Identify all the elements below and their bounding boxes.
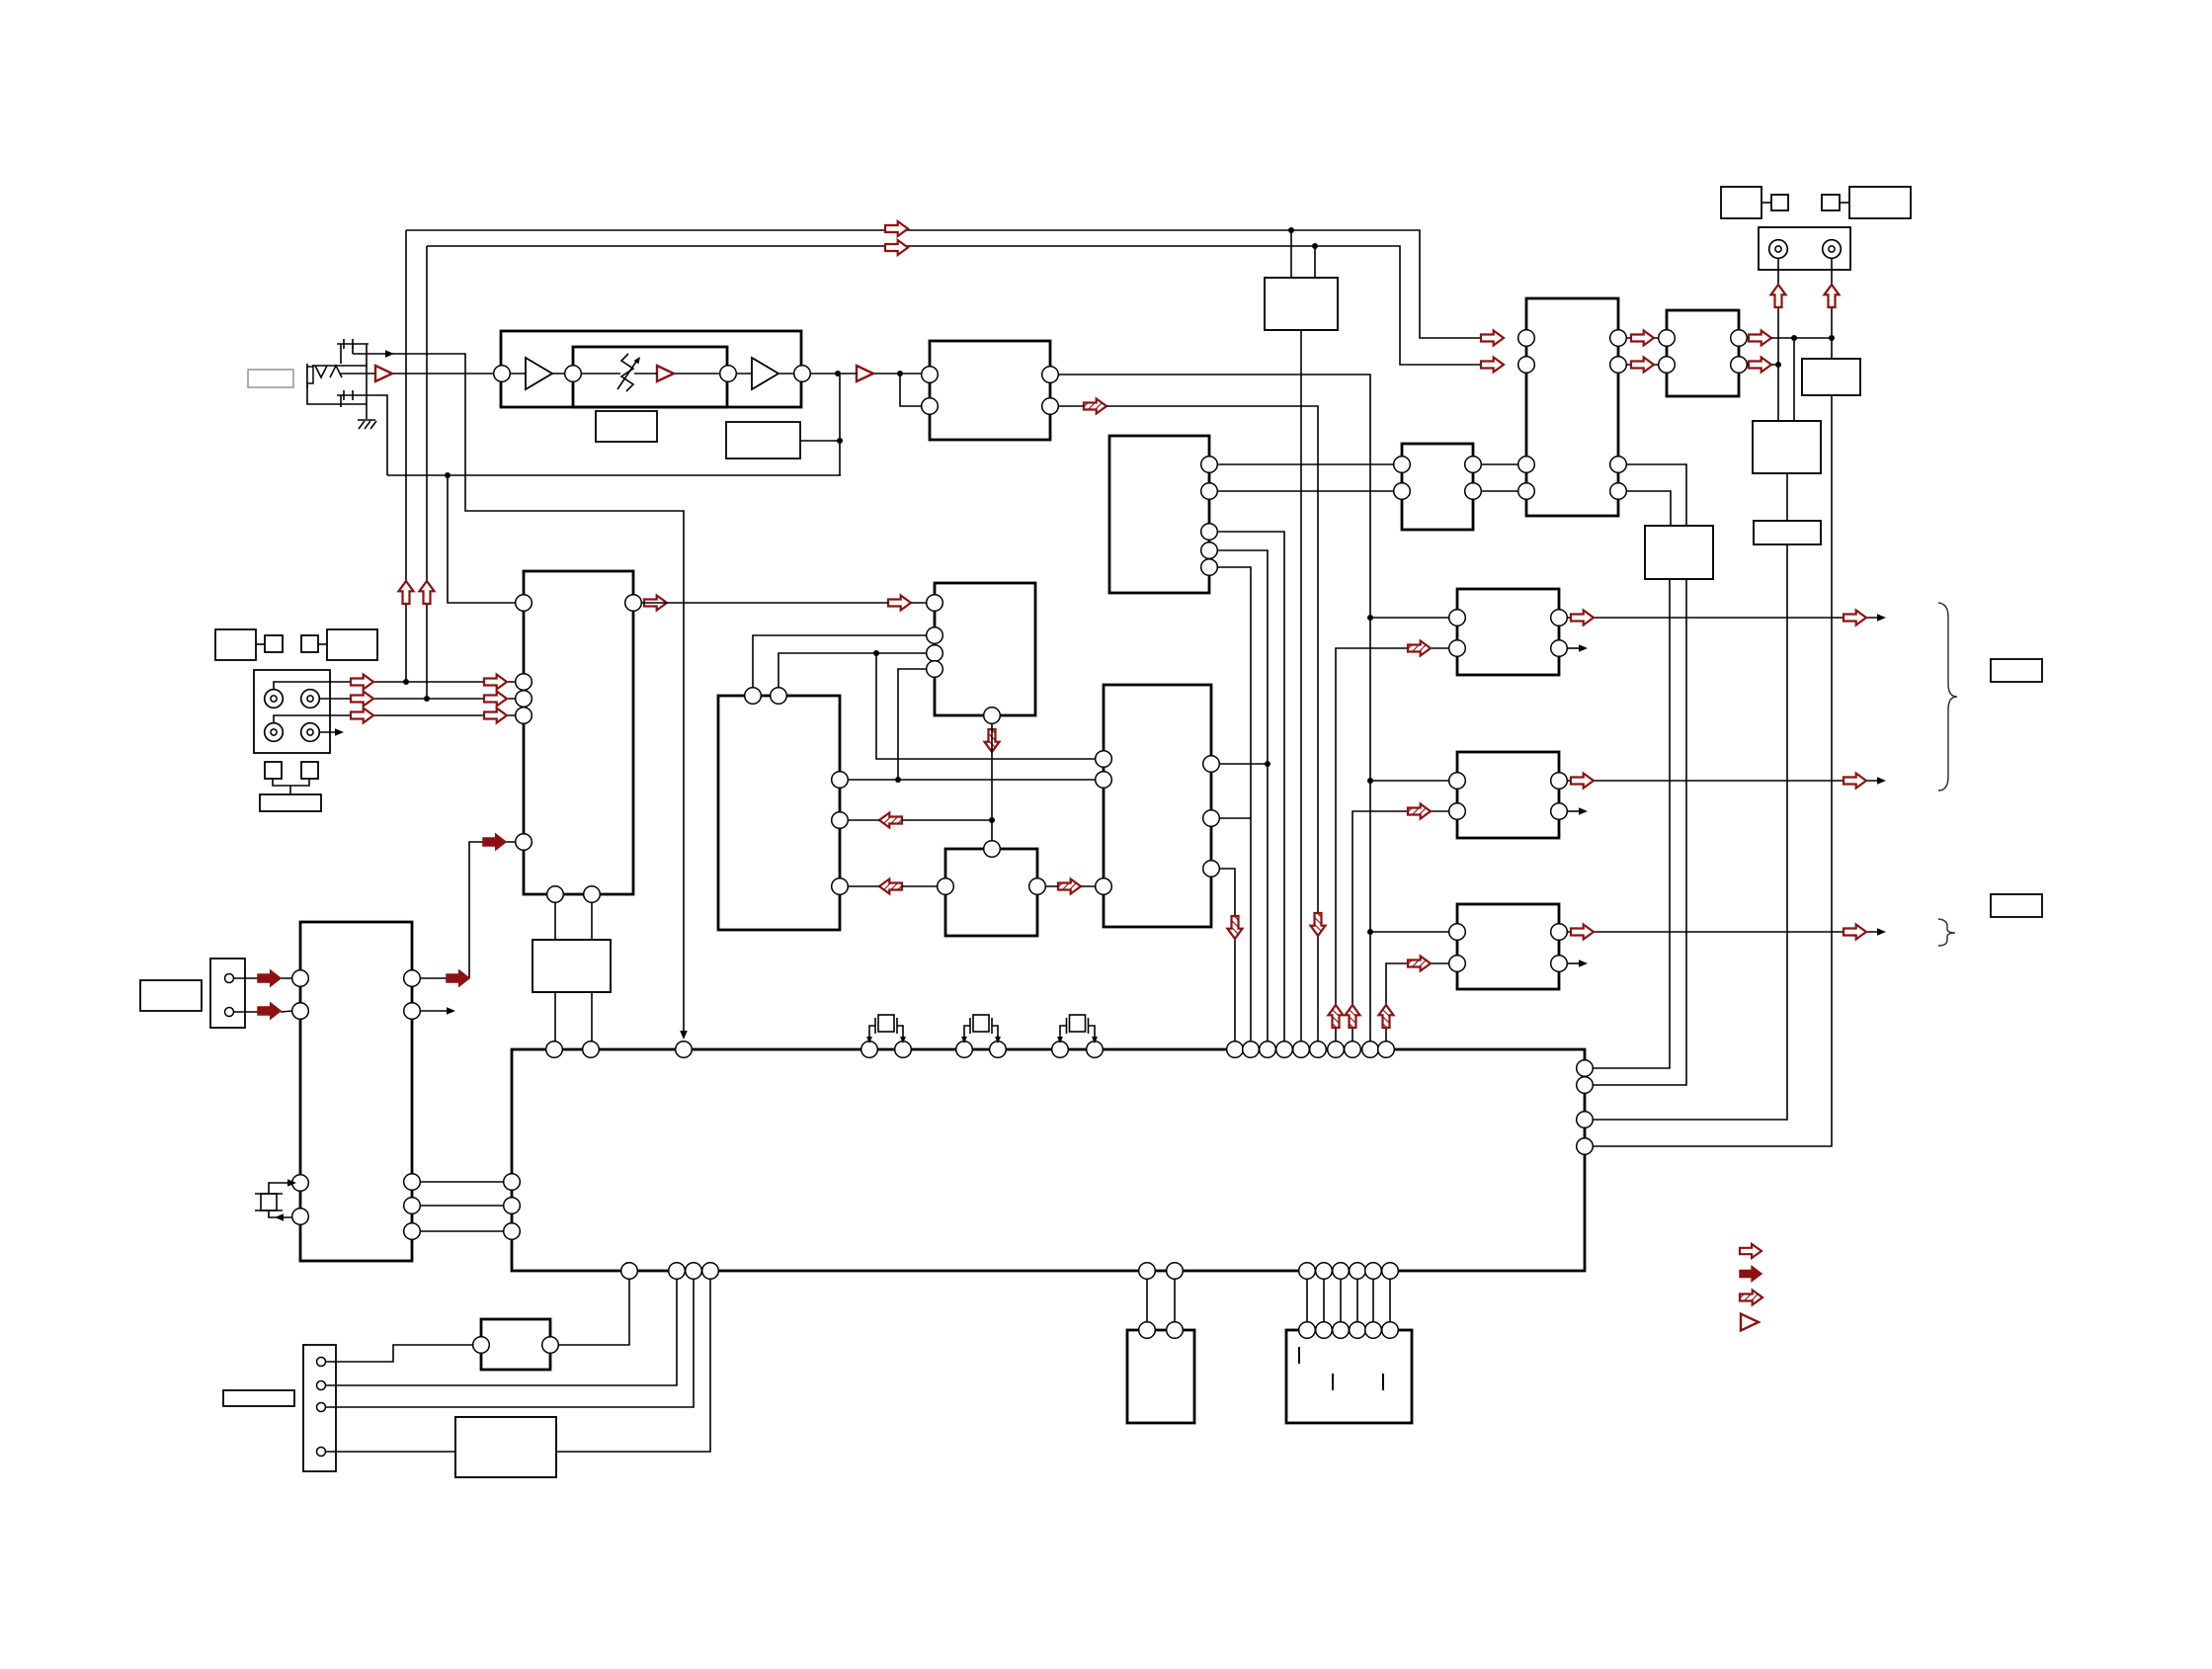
pin T1-2 <box>542 1337 559 1354</box>
pin M1-d <box>1551 640 1568 657</box>
pin U7-t2 <box>771 688 787 705</box>
wire U7r2 <box>848 819 992 821</box>
wire R to M2 <box>1370 780 1449 782</box>
pin U8-r3 <box>1203 861 1220 877</box>
hatched arrow m1ctl <box>1408 641 1431 656</box>
pin U17-t13 <box>1276 1042 1293 1058</box>
key mark 2 <box>1332 1374 1334 1390</box>
wire J4p2-U17 <box>326 1279 677 1385</box>
pin U6-2 <box>927 627 943 644</box>
headphone amp box U15 <box>1753 421 1821 473</box>
wire PS1-U17 <box>556 1279 710 1452</box>
pin U11-l3 <box>1518 457 1535 473</box>
pin U17-t12 <box>1260 1042 1276 1058</box>
node audio R in <box>1367 778 1373 784</box>
wire out2 R2 <box>1567 810 1581 812</box>
arrow DAC out L <box>1631 331 1654 346</box>
mute block M2 <box>1457 752 1559 838</box>
accessory box K <box>1849 187 1911 218</box>
resistor R2 <box>726 422 800 459</box>
pin KB1-3 <box>1333 1322 1350 1339</box>
pin U11-r2 <box>1610 357 1627 374</box>
pin U17-b3 <box>686 1263 702 1280</box>
wire U2 out aux <box>1058 406 1318 1049</box>
pin U19-r3 <box>404 1174 421 1191</box>
pin U5-x2 <box>584 886 601 903</box>
node HF-L join <box>403 679 409 685</box>
decoder block U8 <box>1104 685 1211 927</box>
pin U8-l3 <box>1096 878 1112 895</box>
wire jack4 out <box>319 731 340 733</box>
pin U8-r2 <box>1203 810 1220 827</box>
pin U17-r3 <box>1577 1112 1594 1128</box>
resistor R1 <box>596 411 657 442</box>
pin U19-r2 <box>404 1003 421 1020</box>
RCA jack 4 <box>301 723 320 742</box>
LPF block U12 <box>1667 310 1739 396</box>
pin U17-t17 <box>1345 1042 1361 1058</box>
J4 pin 1 <box>317 1358 326 1367</box>
pin KB1-5 <box>1365 1322 1382 1339</box>
wire DAC-LPF R <box>1626 364 1659 366</box>
RCA jack 3 <box>265 723 284 742</box>
amplifier A1 <box>657 366 674 381</box>
arrow LPF out R <box>1749 358 1771 373</box>
wire U5x1-U18 <box>554 902 556 940</box>
pin U19-r4 <box>404 1198 421 1214</box>
wire TE row <box>319 698 516 700</box>
pin U9-t <box>984 841 1001 858</box>
reset component at 976 <box>964 1026 970 1042</box>
wire U15-U16 <box>1786 473 1788 521</box>
pin U19-l1 <box>292 970 309 987</box>
pin U7-r3 <box>832 878 849 895</box>
phones jack box J2 <box>1759 227 1850 270</box>
arrow DAC in R <box>1481 358 1504 373</box>
system controller block U17 <box>512 1049 1585 1271</box>
accessory box G <box>260 794 321 811</box>
wire U8r3 <box>1219 869 1235 1049</box>
display driver block U19 <box>300 922 412 1261</box>
accessory box I <box>1771 195 1788 210</box>
brace line-out group <box>1938 603 1957 791</box>
wire remote2 <box>234 1011 292 1012</box>
pin U19-l2 <box>292 1003 309 1020</box>
spindle block U9 <box>945 849 1037 936</box>
wire C-D link <box>318 643 327 645</box>
pin U17-l1 <box>504 1174 521 1191</box>
pin M2-a <box>1449 773 1466 790</box>
wire LPF R out <box>1747 364 1778 366</box>
wire pickup monitor output <box>353 344 684 1038</box>
remote sensor box <box>140 980 202 1011</box>
wire U3 to line R <box>1314 246 1316 278</box>
legend open arrow <box>1740 1244 1761 1258</box>
arrow servo out <box>644 596 667 611</box>
pin U19-r1 <box>404 970 421 987</box>
wire U18 down a <box>554 992 556 1042</box>
accessory box J <box>1822 195 1840 210</box>
pin U17-t8 <box>1052 1042 1069 1058</box>
wire U19-U17 b3 <box>420 1230 504 1232</box>
pin U11-r4 <box>1610 483 1627 500</box>
filled arrow key a <box>447 970 469 986</box>
pin U6-4 <box>927 661 943 678</box>
pin U1-out <box>794 366 811 382</box>
phone jack R <box>1823 240 1842 259</box>
J4 pin 2 <box>317 1381 326 1390</box>
phone jack L <box>1769 240 1788 259</box>
pin U17-t5 <box>895 1042 912 1058</box>
pin U12-r2 <box>1731 357 1748 374</box>
pin U19-r5 <box>404 1223 421 1240</box>
pin U17-b7 <box>1299 1263 1316 1280</box>
hatched arrow U7-U9 <box>879 879 902 894</box>
arrow out L b <box>1843 611 1866 626</box>
wire out2 L2 <box>1567 647 1581 649</box>
EFM comparator block U2 <box>930 341 1050 440</box>
RCA connector block J1 <box>254 670 330 753</box>
remote connector J3 <box>210 959 245 1028</box>
hatched up arrow m2 <box>1346 1005 1360 1028</box>
wire U19 key out <box>420 842 516 978</box>
wire pickup lower output <box>369 395 387 475</box>
RF amplifier inner block U1b <box>573 347 727 407</box>
clock box U18 <box>533 940 611 992</box>
pin U11-l1 <box>1518 330 1535 347</box>
arrowhead X1 top <box>287 1179 296 1187</box>
wire U4 data3 <box>1217 567 1251 1049</box>
wire U7t2-U6 <box>778 653 927 688</box>
pin U17-t6 <box>956 1042 973 1058</box>
pin DSP1-a <box>1139 1322 1156 1339</box>
pin U5-in1 <box>516 595 533 612</box>
transformer box T1 <box>481 1319 550 1370</box>
wire U7r1-U8 <box>848 779 1096 781</box>
volume box U16 <box>1754 521 1821 544</box>
pin U19-l4 <box>292 1209 309 1225</box>
up arrow phones L <box>1771 285 1786 307</box>
wire FE row <box>274 682 516 690</box>
filled arrow key b <box>483 834 506 850</box>
pin U8-l2 <box>1096 772 1112 789</box>
up arrow phones R <box>1825 285 1840 307</box>
node data2 join <box>1265 761 1270 767</box>
digital out block U13 <box>1645 526 1713 579</box>
pin U5-ctl <box>516 834 533 851</box>
pin U2-1 <box>922 367 939 383</box>
reset component at 1073 <box>1060 1026 1067 1042</box>
sync/clock box U3 <box>1265 278 1338 330</box>
wire U8r2 <box>1219 817 1251 819</box>
node feedback join <box>837 438 843 444</box>
pin U7-r2 <box>832 812 849 829</box>
wire RF feedback to servo net <box>387 474 841 476</box>
wire U19 aux out <box>420 1010 450 1012</box>
wire U17-key3 <box>1340 1279 1342 1322</box>
pin U17-b8 <box>1316 1263 1333 1280</box>
wire DAC digital a <box>1626 464 1686 526</box>
RCA jack 1 <box>265 690 284 709</box>
node servo in tap <box>445 472 451 478</box>
wire RF to preamp <box>341 373 374 375</box>
wire U3 down to controller <box>1300 330 1302 1049</box>
arrow SE b <box>484 709 507 723</box>
display box DSP1 <box>1127 1330 1194 1423</box>
node mid junction A <box>873 650 879 656</box>
pin M3-d <box>1551 956 1568 972</box>
pin U1b-in <box>565 366 582 382</box>
pin U17-t7 <box>990 1042 1007 1058</box>
RF amplifier outer block U1 <box>501 331 801 407</box>
remote pin 2 <box>225 1008 234 1017</box>
wire RF out branch to lower pin <box>900 374 922 406</box>
arrow LPF out L <box>1749 331 1771 346</box>
arrowhead out R <box>1877 777 1886 785</box>
hatched arrow EFM aux <box>1084 399 1106 414</box>
pin U10-2 <box>1394 483 1411 500</box>
wire U8r1 <box>1219 763 1268 765</box>
mute block M3 <box>1457 904 1559 989</box>
pin U11-l2 <box>1518 357 1535 374</box>
pin U17-b2 <box>669 1263 686 1280</box>
digital-out label box <box>1991 894 2042 917</box>
pin U7-r1 <box>832 772 849 789</box>
arrow out D b <box>1843 925 1866 940</box>
wire J4p1-T1 <box>326 1345 473 1362</box>
wire servo in <box>448 475 516 603</box>
pin U17-r2 <box>1577 1077 1594 1094</box>
node audio L in <box>1367 615 1373 621</box>
filled arrow remote2 <box>258 1003 281 1019</box>
wire U17-key5 <box>1372 1279 1374 1322</box>
wire out row L <box>1567 617 1881 619</box>
filled arrow remote1 <box>258 970 281 986</box>
wire U3 to line L <box>1290 230 1292 278</box>
pin U7-t1 <box>745 688 762 705</box>
wire U4 bus1 <box>1217 463 1394 465</box>
arrow SE a <box>351 709 373 723</box>
RCA jack 2 <box>301 690 320 709</box>
key mark 1 <box>1298 1347 1300 1364</box>
RAM block U4 <box>1109 436 1209 593</box>
pin U2-2 <box>922 398 939 415</box>
wire EF join <box>273 779 309 794</box>
ground <box>358 419 375 421</box>
wire A-B link <box>256 643 265 645</box>
driver block U7 <box>718 696 840 930</box>
pin U17-t9 <box>1087 1042 1104 1058</box>
reset component at 880 <box>869 1026 875 1042</box>
arrow into U6 <box>888 596 911 611</box>
arrowhead out2 L2 <box>1579 644 1588 652</box>
accessory box F <box>301 762 318 779</box>
up arrow HF R <box>420 581 435 604</box>
wire LPF L out <box>1747 337 1832 339</box>
hatched up arrow m3 <box>1379 1005 1394 1028</box>
amplifier A2 <box>857 366 873 381</box>
interface block U10 <box>1402 444 1473 530</box>
pin U5-te <box>516 691 533 708</box>
wire out2 D2 <box>1567 962 1581 964</box>
crystal X1 <box>261 1194 277 1210</box>
wire L out branch <box>1793 338 1795 421</box>
node L out a <box>1791 335 1797 341</box>
pin U17-l3 <box>504 1223 521 1240</box>
node top line R junction <box>1312 243 1318 249</box>
wire H-I <box>1761 202 1771 204</box>
key mark 3 <box>1382 1374 1384 1390</box>
buffer B1 <box>526 358 552 389</box>
arrow out R b <box>1843 774 1866 789</box>
wire U2 out EFM <box>1058 375 1370 1049</box>
node RF out B <box>897 371 903 376</box>
wire pickup HF vertical R <box>426 246 428 699</box>
pin U17-b5 <box>1139 1263 1156 1280</box>
accessory box H <box>1721 187 1761 218</box>
remote pin 1 <box>225 974 234 983</box>
wire RF to EFM block <box>810 373 922 375</box>
pin U17-b6 <box>1167 1263 1184 1280</box>
arrowhead out2 R2 <box>1579 807 1588 815</box>
wire inside RF block <box>510 373 794 375</box>
pin U9-r <box>1029 878 1046 895</box>
pin U5-se <box>516 708 533 724</box>
legend hatched arrow <box>1740 1291 1762 1305</box>
pin U17-b12 <box>1382 1263 1399 1280</box>
pin U17-t15 <box>1310 1042 1327 1058</box>
pin U17-b11 <box>1365 1263 1382 1280</box>
hatched up arrow m1 <box>1329 1005 1344 1028</box>
pin M1-a <box>1449 610 1466 626</box>
hatched arrow U9-U8 <box>1058 879 1081 894</box>
wire U17-display b <box>1174 1279 1176 1322</box>
node dig in <box>1367 929 1373 935</box>
hatched arrow m3ctl <box>1408 957 1431 971</box>
pin U11-r3 <box>1610 457 1627 473</box>
pin U17-r4 <box>1577 1138 1594 1155</box>
pin T1-1 <box>473 1337 490 1354</box>
legend amplifier symbol <box>1741 1314 1759 1331</box>
hatched arrow m2ctl <box>1408 804 1431 819</box>
amplifier A0 (pickup RF) <box>375 366 392 381</box>
pin M2-b <box>1449 803 1466 820</box>
wire out row R <box>1567 780 1881 782</box>
wire U7r3-U9 <box>848 885 938 887</box>
wire U9-U8 <box>1045 885 1096 887</box>
accessory box A <box>215 629 256 660</box>
wire U4 data2 <box>1217 550 1268 1049</box>
pin U17-b4 <box>702 1263 719 1280</box>
AC cord box <box>223 1390 294 1406</box>
wire out row D <box>1567 931 1881 933</box>
pin U12-r1 <box>1731 330 1748 347</box>
pin U5-out <box>625 595 642 612</box>
pin U5-x1 <box>547 886 564 903</box>
legend filled arrow <box>1740 1267 1761 1282</box>
pin U12-l1 <box>1659 330 1676 347</box>
pin U10-3 <box>1465 457 1482 473</box>
brace digital-out <box>1938 919 1955 946</box>
pin U17-t1 <box>546 1042 563 1058</box>
wire U7t1-U6 <box>753 635 927 688</box>
pin U17-t16 <box>1328 1042 1345 1058</box>
pin KB1-2 <box>1316 1322 1333 1339</box>
pin M2-c <box>1551 773 1568 790</box>
wire mute3 ctl <box>1386 963 1449 1049</box>
pin U4-2 <box>1201 483 1218 500</box>
wire U6b down <box>991 723 993 841</box>
pin KB1-1 <box>1299 1322 1316 1339</box>
node mid junction B <box>895 777 901 783</box>
pin M3-c <box>1551 924 1568 941</box>
arrowhead out L <box>1877 614 1886 622</box>
wire remote1 <box>234 977 292 979</box>
arrow out L a <box>1571 611 1594 626</box>
wire pickup HF vertical L <box>405 230 407 682</box>
wire U13 down b <box>1593 579 1686 1085</box>
wire U13 down a <box>1593 579 1670 1068</box>
pin U8-l1 <box>1096 751 1112 768</box>
arrow on top line L <box>885 221 908 236</box>
wire U17-display a <box>1146 1279 1148 1322</box>
wire U16 down <box>1593 544 1787 1120</box>
wire J4p3-U17 <box>326 1279 694 1407</box>
arrowhead X1 bottom <box>275 1213 284 1221</box>
pin M3-b <box>1449 956 1466 972</box>
keys box KB1 <box>1286 1330 1412 1423</box>
arrowhead out D <box>1877 928 1886 936</box>
arrow FE b <box>484 675 507 690</box>
pin M3-a <box>1449 924 1466 941</box>
hatched down arrow U8r3 <box>1228 916 1243 939</box>
arrow on top line R <box>885 240 908 255</box>
power supply box PS1 <box>455 1417 556 1477</box>
hatched arrow focus <box>879 813 902 828</box>
J4 pin 4 <box>317 1448 326 1457</box>
power connector J4 <box>303 1345 336 1471</box>
pin U2-4 <box>1042 398 1059 415</box>
arrowhead into controller pin <box>680 1031 688 1040</box>
pin U5-fe <box>516 674 533 691</box>
wire mute2 ctl <box>1352 811 1449 1049</box>
wire J4p4-PS1 <box>326 1451 455 1453</box>
pin DSP1-b <box>1167 1322 1184 1339</box>
pin U4-3 <box>1201 524 1218 541</box>
accessory box E <box>265 762 282 779</box>
accessory box B <box>265 635 283 652</box>
pin U4-1 <box>1201 457 1218 473</box>
pin M1-b <box>1449 640 1466 657</box>
wire U17-key2 <box>1323 1279 1325 1322</box>
node tracking join <box>989 817 995 823</box>
arrow on monitor wire <box>385 350 394 358</box>
wire U14 down <box>1593 395 1832 1146</box>
pin U17-t10 <box>1227 1042 1244 1058</box>
wire DAC-LPF L <box>1626 337 1659 339</box>
wire U19-U17 b1 <box>420 1181 504 1183</box>
wire X1 bottom <box>269 1210 292 1217</box>
pin U1-in <box>494 366 511 382</box>
arrow TE b <box>484 692 507 707</box>
pin U17-t14 <box>1293 1042 1310 1058</box>
pin U17-t3 <box>676 1042 693 1058</box>
line-out label box <box>1991 659 2042 682</box>
node RF out A <box>835 371 841 376</box>
wire L to M1 <box>1370 617 1449 619</box>
hatched down arrow U6 bottom <box>985 729 1000 752</box>
arrow out R a <box>1571 774 1594 789</box>
